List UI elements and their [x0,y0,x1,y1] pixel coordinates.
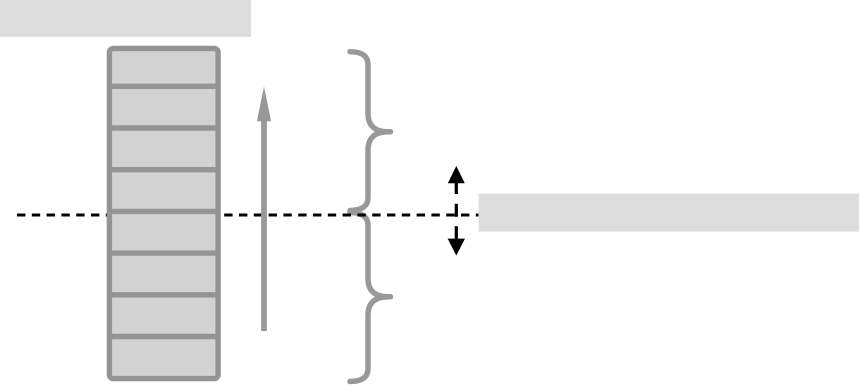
upper brace [350,52,391,211]
black double arrow shaft dash 2 [455,204,458,217]
black double arrow shaft dash 3 [455,226,458,239]
gray up arrow shaft [261,119,267,331]
grating divider 3 [109,167,218,172]
gray up arrow head [257,87,271,122]
grating divider 5 [109,250,218,255]
grating stack body [109,48,218,378]
dashed optical axis [17,214,479,217]
label placeholder right [479,194,859,232]
black arrow head down [448,239,465,256]
lower brace [350,213,391,382]
black arrow head up [448,166,465,183]
grating divider 2 [109,125,218,130]
grating divider 7 [109,334,218,339]
grating divider 4 [109,209,218,214]
grating divider 6 [109,292,218,297]
grating divider 1 [109,84,218,89]
black double arrow shaft dash 1 [455,183,458,194]
label placeholder top-left [0,0,251,37]
